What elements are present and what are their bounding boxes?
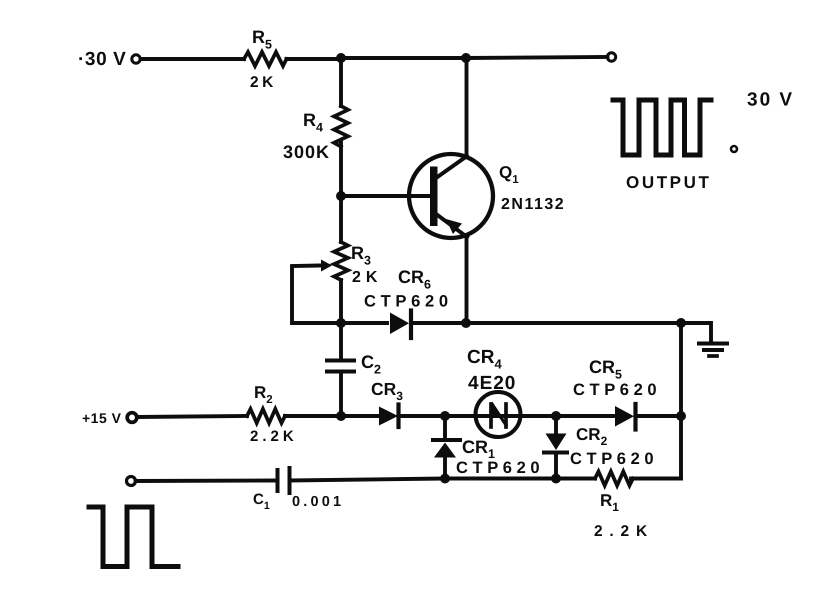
svg-text:C2: C2 [361,352,381,377]
node base junction [336,191,346,201]
svg-text:R3: R3 [351,243,371,268]
wire: emitter down [465,237,469,323]
wire: CR6 to node D [412,321,682,325]
svg-text:CTP620: CTP620 [364,293,453,311]
wire: R4 to base node [339,141,343,196]
node E junction [336,411,346,421]
diode CR1 (points up) [443,416,447,440]
R3 wiper arrow [316,264,326,267]
wire: input terminal to C1 [136,479,278,483]
svg-text:4E20: 4E20 [468,373,516,394]
svg-text:CTP620: CTP620 [456,459,544,477]
resistor R2 [247,409,285,423]
wire: CR5 to right rail [637,414,682,418]
svg-text:0.001: 0.001 [292,494,344,510]
output zero-level circle [731,146,737,152]
node I junction [551,474,561,484]
wire: base node to transistor base [341,194,431,198]
tunnel diode CR4 [476,392,521,437]
wire: top rail node A to collector node [341,56,466,60]
wire: R2 to node E [285,414,341,418]
input waveform [89,507,178,567]
svg-text:Q1: Q1 [499,163,519,186]
svg-text:CR3: CR3 [371,379,403,403]
wire: +15V to R2 [137,416,247,417]
wire: CR3 to node F [400,414,446,418]
svg-text:CR1: CR1 [462,437,495,461]
svg-text:30 V: 30 V [747,90,794,111]
wire C2 to node E [339,372,343,417]
svg-text:2N1132: 2N1132 [501,196,565,213]
node C junction [336,318,346,328]
resistor R4 [334,106,348,147]
capacitor C2 [327,359,354,363]
svg-text:2.2K: 2.2K [250,428,298,445]
svg-text:C1: C1 [253,491,270,512]
wire: base node down to R3 [339,196,343,242]
svg-text:R2: R2 [254,383,273,406]
diode CR5 [615,406,634,427]
wire: R3 bottom to node C [339,280,343,323]
wiper loop wire [292,266,341,324]
bottom rail wire [290,479,596,481]
svg-text:R4: R4 [303,110,323,135]
capacitor C1 [276,470,280,491]
svg-text:R5: R5 [252,27,272,52]
node H junction [440,474,450,484]
resistor R5 [244,52,287,66]
node F junction [440,411,450,421]
wire through CR4 [445,414,556,418]
node emitter on CR6 line [461,318,471,328]
svg-text:CR6: CR6 [398,267,431,292]
svg-text:CR2: CR2 [576,425,608,448]
wire: collector up [465,58,469,156]
diode CR3 [379,407,398,426]
ground stub wire [681,323,711,341]
ground symbol [699,342,727,346]
wire: node B to output terminal [466,57,608,58]
svg-text:CTP620: CTP620 [570,450,658,468]
svg-text:CR4: CR4 [467,347,502,372]
node D junction [676,318,686,328]
output waveform [613,100,711,155]
svg-text:OUTPUT: OUTPUT [626,173,711,192]
node on right rail at CR5 line [676,411,686,421]
svg-text:300K: 300K [283,142,330,162]
wire: node E to CR3 [341,414,378,418]
svg-text:CR5: CR5 [589,357,622,382]
input terminal [127,477,136,486]
svg-text:2K: 2K [352,269,382,286]
output terminal circle [607,53,615,61]
terminal +15V [127,413,137,423]
transistor Q1 [409,154,493,238]
node B collector junction [461,53,471,63]
wire: node A down to R4 [339,58,343,106]
right vertical wire [679,323,683,479]
diode CR6 [390,313,409,335]
Q1 emitter arrow [446,219,462,234]
svg-text:·30 V: ·30 V [78,49,126,70]
wire: -30V terminal to R5 [141,57,245,61]
terminal -30V [132,55,140,63]
svg-text:2.2K: 2.2K [594,523,654,540]
potentiometer R3 [334,242,348,280]
node A junction [336,53,346,63]
svg-text:2K: 2K [250,74,277,91]
wire: node G to CR5 [556,414,613,418]
diode CR2 (points down) [554,416,558,433]
svg-text:R1: R1 [600,491,619,514]
node G junction [551,411,561,421]
wire: node C to CR6 [341,321,387,325]
resistor R1 [595,472,633,486]
wire: R5 to node A [287,57,342,61]
svg-text:+15 V: +15 V [82,410,122,426]
wire: R1 to right rail corner [631,477,681,481]
svg-text:CTP620: CTP620 [573,381,661,399]
C2 wire from node C [339,323,343,360]
